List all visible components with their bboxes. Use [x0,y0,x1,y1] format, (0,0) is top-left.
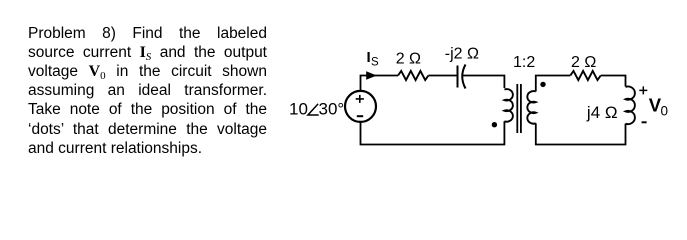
svg-text:S: S [371,57,379,69]
svg-text:1:2: 1:2 [513,54,535,71]
svg-text:j4 Ω: j4 Ω [586,103,618,122]
svg-text:-j2 Ω: -j2 Ω [445,46,479,63]
svg-text:2 Ω: 2 Ω [571,54,596,71]
svg-text:10: 10 [289,99,308,118]
svg-text:2 Ω: 2 Ω [396,51,421,68]
svg-text:30°: 30° [319,99,345,118]
svg-text:0: 0 [661,104,669,119]
